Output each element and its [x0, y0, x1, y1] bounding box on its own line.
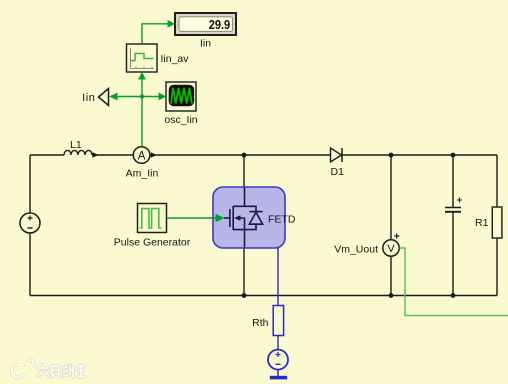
resistor R1	[475, 207, 502, 238]
wire voltmeter branch	[390, 155, 392, 296]
inductor L1	[64, 139, 99, 158]
block Iin_av (averaging function)	[127, 44, 190, 72]
svg-text:Iin: Iin	[82, 92, 95, 104]
svg-text:osc_Iin: osc_Iin	[164, 114, 197, 126]
svg-text:R1: R1	[475, 217, 489, 229]
goto tag Iin	[82, 89, 108, 106]
svg-text:29.9: 29.9	[209, 17, 231, 32]
FETD body arrow	[234, 215, 241, 221]
svg-text:L1: L1	[70, 139, 82, 151]
ammeter Am_Iin	[126, 147, 159, 180]
svg-text:Iin: Iin	[200, 38, 211, 50]
wire capacitor branch	[452, 155, 454, 296]
voltage source V_dc	[20, 213, 40, 233]
diode D1	[331, 148, 345, 178]
scope osc_Iin	[164, 82, 197, 126]
svg-text:Vm_Uout: Vm_Uout	[334, 244, 378, 256]
gate signal arrow into FETD	[214, 214, 225, 222]
svg-text:FETD: FETD	[268, 214, 296, 226]
signal wire ammeter to junction	[141, 97, 143, 147]
signal wire junction to Iin_av	[138, 72, 146, 97]
svg-text:Iin_av: Iin_av	[161, 53, 190, 65]
wire Rth to thermal source	[277, 336, 279, 350]
ground (thermal)	[270, 376, 287, 380]
wire bottom rail	[30, 295, 497, 297]
thermal source (temperature)	[268, 350, 288, 370]
svg-text:A: A	[138, 151, 146, 163]
signal wire junction to scope	[142, 93, 167, 101]
capacitor C1	[445, 198, 462, 212]
watermark text	[37, 365, 85, 378]
watermark logo	[12, 360, 33, 377]
svg-text:Pulse Generator: Pulse Generator	[114, 237, 191, 249]
signal wire voltmeter output	[399, 248, 508, 316]
display Iin (numeric display 29.9)	[175, 13, 236, 50]
resistor Rth (thermal)	[252, 306, 283, 336]
wire right rail	[496, 155, 498, 296]
signal wire junction to goto tag	[109, 93, 142, 101]
svg-text:V: V	[387, 243, 395, 255]
voltmeter Vm_Uout	[334, 234, 399, 257]
transistor block FETD (MOSFET with diode)	[213, 187, 285, 248]
wire source to ground	[277, 369, 279, 376]
svg-text:Am_Iin: Am_Iin	[126, 168, 159, 180]
svg-text:Rth: Rth	[252, 317, 269, 329]
wire left rail	[29, 155, 31, 296]
block Pulse Generator	[114, 204, 191, 249]
node junction dots	[242, 153, 456, 298]
signal junction node	[140, 94, 144, 98]
wire FET drain branch	[243, 155, 245, 207]
wire top rail	[30, 154, 497, 156]
wire thermal FETD to Rth (blue)	[277, 248, 279, 306]
signal wire pulse generator to FETD gate	[167, 217, 215, 219]
signal wire Iin_av to display	[142, 20, 175, 44]
op FETD internal symbol	[224, 188, 263, 248]
svg-text:D1: D1	[331, 166, 345, 178]
wire FET source branch	[243, 230, 245, 296]
